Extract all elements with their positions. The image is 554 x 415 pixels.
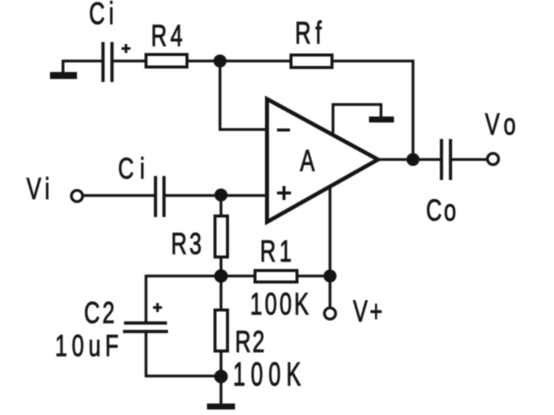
svg-text:Vi: Vi [27, 171, 54, 206]
ground (op-amp case) [333, 105, 381, 134]
minus symbol [277, 129, 290, 132]
wire R3 to node [220, 257, 223, 310]
resistor Rf [291, 55, 332, 68]
capacitor Ci (input, top) [101, 42, 104, 82]
svg-text:A: A [300, 143, 315, 178]
wire to inverting input [220, 61, 266, 130]
resistor R2 [215, 310, 228, 351]
wire Rf to output node [332, 61, 413, 153]
wire Vi to Ci [83, 194, 154, 197]
wire Ci to R4 [114, 60, 147, 63]
wire R1 to V+ node [297, 275, 330, 278]
svg-text:R1: R1 [260, 234, 295, 269]
wire C2 to ground node [146, 333, 221, 376]
resistor R4 [146, 55, 187, 68]
wire node to C2 [146, 276, 221, 322]
resistor R3 [215, 216, 228, 257]
wire R4 to Rf [187, 60, 291, 63]
svg-text:100K: 100K [233, 356, 306, 392]
svg-text:Vo: Vo [485, 107, 521, 142]
polarity + of Ci top [122, 44, 131, 53]
node (V+) [324, 270, 337, 283]
wire op-amp output [377, 158, 440, 161]
capacitor C2 [124, 321, 167, 324]
wire node to R3 [220, 195, 223, 216]
node (ground junction) [214, 370, 228, 384]
node (+ input / R3) [215, 189, 228, 202]
capacitor Ci (input, bottom) [154, 176, 157, 217]
plus symbol [277, 186, 291, 200]
svg-text:R4: R4 [151, 18, 186, 53]
op-amp A [267, 99, 378, 222]
svg-text:Co: Co [426, 193, 458, 228]
svg-text:10uF: 10uF [55, 328, 123, 363]
wire Ci to non-inverting input [166, 194, 267, 197]
node (output) [407, 153, 420, 166]
svg-text:R2: R2 [235, 324, 266, 359]
wire op-amp V+ pin down [329, 187, 332, 308]
node (R4/Rf junction) [214, 55, 227, 68]
svg-text:Ci: Ci [118, 151, 151, 185]
wire node to R1 [221, 275, 255, 278]
svg-text:C2: C2 [84, 295, 117, 330]
svg-text:R3: R3 [171, 226, 204, 261]
ground (bottom) [207, 404, 235, 410]
resistor R1 [255, 271, 297, 283]
svg-text:Ci: Ci [89, 0, 118, 31]
capacitor Co [440, 139, 443, 180]
terminal V+ [324, 308, 335, 319]
polarity + of C2 [153, 303, 162, 312]
svg-text:V+: V+ [353, 294, 385, 329]
node (R3/R1/R2/C2) [214, 269, 228, 283]
terminal Vi [71, 190, 82, 201]
wire R2 to ground [220, 351, 223, 404]
svg-text:100K: 100K [250, 287, 311, 322]
svg-text:Rf: Rf [295, 14, 326, 50]
terminal Vo [487, 153, 498, 164]
wire Co to Vo terminal [452, 158, 487, 161]
ground (top-left) [63, 61, 102, 72]
